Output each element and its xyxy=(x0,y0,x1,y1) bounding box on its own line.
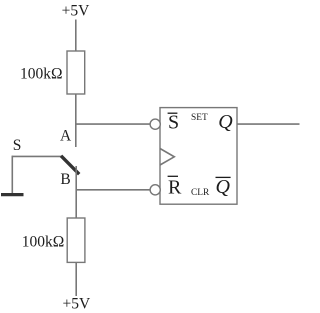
svg-text:+5V: +5V xyxy=(62,3,90,20)
S-bar input bubble xyxy=(150,119,160,129)
wire node B to R-bar input bubble xyxy=(76,189,150,191)
svg-text:SET: SET xyxy=(191,113,208,123)
svg-text:A: A xyxy=(60,128,72,145)
svg-text:B: B xyxy=(60,171,70,188)
resistor R2 (100kΩ pull-up) xyxy=(67,218,85,262)
svg-text:Q: Q xyxy=(216,176,231,198)
svg-text:CLR: CLR xyxy=(191,188,210,198)
svg-text:+5V: +5V xyxy=(63,296,91,313)
resistor R1 (100kΩ pull-up) xyxy=(67,51,85,94)
wire switch pole horizontal xyxy=(12,155,61,157)
svg-text:S: S xyxy=(168,112,179,134)
svg-text:100kΩ: 100kΩ xyxy=(20,65,63,82)
switch S arm (thrown to B contact) xyxy=(61,156,79,174)
wire node A to S-bar input bubble xyxy=(76,123,151,125)
clock triangle on U1 left edge xyxy=(160,149,174,166)
R-bar input bubble xyxy=(150,185,160,195)
svg-text:100kΩ: 100kΩ xyxy=(22,234,65,251)
wire switch pole down to ground xyxy=(11,156,13,194)
svg-text:Q: Q xyxy=(218,111,233,133)
svg-text:S: S xyxy=(13,137,22,154)
wire R1 bottom through node A to switch upper contact xyxy=(75,94,77,147)
ground xyxy=(1,193,24,196)
wire +5V to R1 top xyxy=(75,20,77,52)
svg-text:R: R xyxy=(168,177,182,199)
wire R2 bottom to +5V xyxy=(75,262,77,296)
SR latch U1 body xyxy=(160,108,237,205)
wire Q output xyxy=(237,123,300,125)
wire lower contact through node B to R2 xyxy=(75,166,77,218)
